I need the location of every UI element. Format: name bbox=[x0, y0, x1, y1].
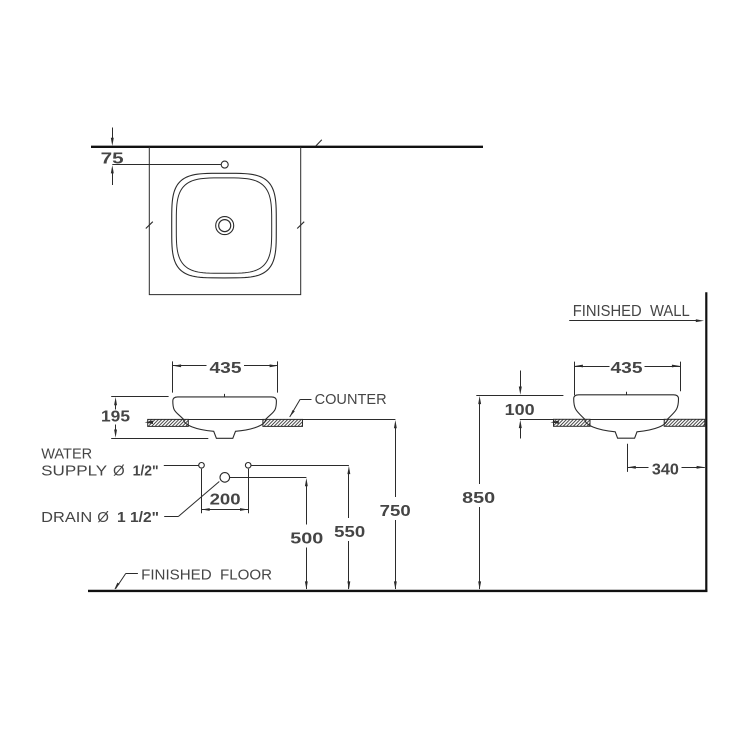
svg-text:Ø: Ø bbox=[97, 509, 109, 526]
svg-text:100: 100 bbox=[505, 402, 535, 419]
svg-text:SUPPLY: SUPPLY bbox=[41, 463, 107, 480]
svg-text:340: 340 bbox=[652, 461, 679, 478]
svg-text:435: 435 bbox=[210, 360, 242, 377]
svg-text:750: 750 bbox=[380, 503, 411, 520]
svg-text:550: 550 bbox=[334, 524, 365, 541]
svg-text:75: 75 bbox=[101, 150, 124, 167]
svg-text:FINISHED WALL: FINISHED WALL bbox=[573, 303, 690, 320]
svg-text:WATER: WATER bbox=[41, 445, 92, 462]
svg-text:1/2": 1/2" bbox=[133, 463, 159, 480]
svg-text:850: 850 bbox=[462, 490, 495, 507]
svg-text:Ø: Ø bbox=[113, 463, 125, 480]
svg-text:COUNTER: COUNTER bbox=[315, 391, 387, 408]
svg-text:200: 200 bbox=[210, 491, 241, 508]
svg-text:DRAIN: DRAIN bbox=[41, 509, 92, 526]
svg-text:1 1/2": 1 1/2" bbox=[117, 509, 159, 526]
svg-text:195: 195 bbox=[101, 408, 130, 425]
svg-text:FINISHED FLOOR: FINISHED FLOOR bbox=[141, 567, 272, 584]
svg-text:500: 500 bbox=[290, 531, 323, 548]
svg-text:435: 435 bbox=[611, 360, 643, 377]
